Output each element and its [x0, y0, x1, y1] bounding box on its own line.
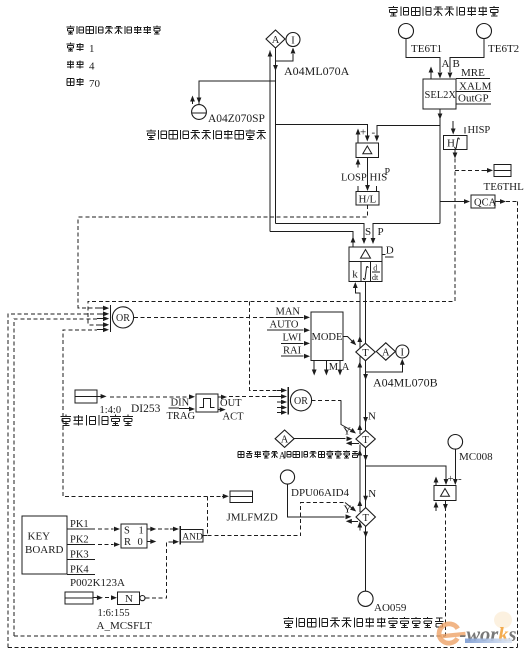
dashed AND output to transfer T3 [208, 503, 357, 536]
wire T2 output down to T3 [363, 448, 368, 508]
dashed outer left bus up to OR1 [8, 312, 109, 648]
header line 站号 4 [67, 60, 95, 72]
svg-text:KEY: KEY [28, 531, 51, 543]
svg-text:1: 1 [89, 43, 95, 55]
svg-text:PK2: PK2 [70, 535, 89, 546]
svg-text:ACT: ACT [223, 412, 245, 423]
SR flipflop [121, 524, 147, 548]
svg-text:BOARD: BOARD [25, 544, 64, 556]
wire track readback up to diamond A [268, 51, 273, 232]
OR gate (force manual) [97, 305, 134, 332]
setpoint station A04Z070SP [192, 105, 265, 125]
svg-text:MAN: MAN [276, 307, 301, 318]
svg-text:P: P [378, 226, 384, 238]
svg-text:N: N [368, 411, 376, 423]
title 甲磨煤机出口温度控制 (right) [389, 6, 499, 16]
svg-text:+: + [448, 473, 454, 485]
wire feedback into PID bottom [353, 282, 362, 348]
svg-text:I: I [291, 35, 295, 46]
wire T3 output down to AO059 [363, 526, 368, 591]
svg-text:PK3: PK3 [70, 550, 89, 561]
dashed inner left bus up to OR1 [14, 316, 109, 636]
svg-text:MRE: MRE [461, 67, 485, 79]
svg-text:d: d [373, 264, 377, 273]
wire feedback T2 to T1 [357, 357, 362, 434]
wire feedback T3 to T2 [357, 445, 362, 512]
svg-text:MODE: MODE [312, 332, 343, 343]
deviation bottom stub [434, 502, 439, 512]
output terminal JMLFMZD [227, 491, 278, 524]
svg-text:A: A [272, 35, 280, 46]
high limit block Hf [443, 121, 490, 150]
svg-text:S: S [124, 526, 130, 537]
dashed wire DI253 to pulse DIN [110, 394, 195, 408]
wire MODE output to transfer T1 [343, 337, 356, 346]
svg-text:k: k [352, 269, 358, 281]
SEL2X output OutGP [456, 93, 491, 105]
header title 甲磨煤机出口温度控制 [66, 26, 161, 35]
selector SEL2X [423, 79, 456, 109]
setpoint raise stub [190, 96, 195, 105]
svg-text:N: N [125, 593, 133, 605]
dashed wire PK1 to flipflop S [98, 527, 120, 532]
svg-text:A: A [342, 362, 350, 373]
caption 料位控制柜A磨煤机热风挡板指令 [238, 450, 358, 460]
analog input diamond A (level control cabinet) [275, 430, 294, 447]
svg-text:B: B [453, 58, 460, 70]
dashed AND output to JMLFMZD and left bus [203, 494, 229, 536]
dashed wire to TE6THL terminal [455, 168, 493, 173]
svg-text:PK4: PK4 [70, 565, 89, 576]
svg-text:N: N [368, 488, 376, 500]
svg-text:1: 1 [139, 526, 144, 537]
T2 readback stub left [346, 441, 359, 446]
svg-text:0: 0 [138, 537, 143, 548]
svg-text:A: A [281, 434, 289, 445]
quality check block QCA [440, 195, 497, 209]
caption 甲排粉机跳闸 [61, 415, 134, 426]
wire DPU06AID4 to T3 Y input [288, 484, 352, 519]
wire MAN command from OR gate to MODE [134, 307, 310, 320]
analog input TE6T1 [399, 24, 443, 56]
header line 域号 1 [66, 43, 94, 56]
indicator circle I (A04ML070B) [396, 345, 409, 358]
svg-text:T: T [362, 435, 369, 446]
dashed wire PK2 to flipflop R [98, 542, 120, 547]
AND gate [180, 526, 203, 545]
svg-text:Y: Y [343, 426, 351, 438]
e-works watermark logo [437, 612, 517, 647]
svg-text:XALM: XALM [459, 81, 492, 93]
svg-text:MC008: MC008 [459, 451, 493, 463]
svg-text:TE6T1: TE6T1 [411, 43, 442, 55]
svg-text:S: S [365, 226, 371, 238]
svg-text:HISP: HISP [468, 125, 491, 136]
svg-text:LWI: LWI [283, 333, 303, 344]
svg-text:SEL2X: SEL2X [425, 90, 457, 101]
wire output branch to deviation plus input [366, 466, 454, 485]
pulse (one-shot) block [196, 394, 218, 412]
deviation block (setpoint - PV) [356, 143, 379, 158]
dashed wire NOT output up to AND [146, 539, 180, 598]
PK3 output [67, 550, 95, 561]
svg-text:-: - [372, 127, 376, 139]
PK2 output [67, 535, 95, 546]
svg-text:RAI: RAI [283, 346, 302, 357]
dashed wire H-limit flag down and to OR1 [88, 159, 455, 328]
dashed deviation alarm output down [443, 501, 448, 637]
svg-text:P002K123A: P002K123A [70, 577, 125, 589]
setpoint caption 甲磨煤机出口温度设定值 [147, 130, 266, 140]
svg-text:A_MCSFLT: A_MCSFLT [97, 620, 153, 632]
wire SEL2X output down (measured value) [438, 109, 443, 224]
LWI input wire [281, 333, 310, 346]
svg-text:dt: dt [372, 273, 379, 282]
svg-text:DI253: DI253 [131, 403, 161, 415]
svg-text:AUTO: AUTO [270, 320, 299, 331]
svg-text:R: R [124, 537, 131, 548]
AUTO input wire [267, 320, 310, 333]
wire setpoint up to operator line [197, 81, 276, 104]
wire diamond A down to setpoint line [273, 48, 278, 224]
svg-text:T: T [362, 513, 369, 524]
svg-text:H/L: H/L [359, 194, 377, 206]
svg-text:PK1: PK1 [70, 519, 89, 530]
svg-text:M: M [329, 362, 339, 373]
pulse OUT output to OR2 [218, 395, 277, 409]
dashed outer bottom bus [8, 647, 518, 649]
label 1:4:0 DI253 [100, 403, 161, 416]
deviation block (output vs MC008) [434, 486, 456, 501]
wire A to T2 Y input [294, 426, 352, 442]
svg-text:D: D [386, 245, 394, 257]
svg-text:A: A [442, 58, 450, 70]
wire PID output down to transfer T1 [365, 281, 367, 343]
svg-text:Y: Y [344, 504, 352, 516]
pulse ACT output stub [218, 407, 244, 422]
input terminal A_MCSFLT [65, 592, 103, 604]
wire Hf output down [453, 150, 458, 159]
wire minus input to deviation block [372, 126, 441, 142]
wire T1 output down to T2 [363, 361, 368, 431]
svg-text:70: 70 [89, 78, 101, 90]
output terminal TE6THL [484, 165, 525, 194]
dashed wire to NOT gate [105, 595, 117, 600]
PK1 output [67, 519, 95, 530]
TRAG input wire [167, 407, 196, 422]
header line 页号 70 [67, 78, 101, 90]
svg-text:+: + [360, 127, 366, 139]
SEL2X output XALM [456, 81, 492, 93]
wire track line from PID top to A04ML070A [270, 232, 355, 247]
PID output D stub [382, 245, 394, 257]
svg-text:AO059: AO059 [374, 602, 407, 614]
dashed wire H-limit branch to OR2 input [250, 301, 277, 390]
wire setpoint plus input to deviation block [276, 125, 370, 142]
indicator circle I (A04ML070A) [286, 33, 300, 47]
svg-text:1:6:155: 1:6:155 [98, 608, 130, 619]
svg-text:A04Z070SP: A04Z070SP [208, 113, 265, 125]
wire S input (setpoint) to PID [276, 224, 372, 245]
PK4 output [67, 565, 95, 576]
input terminal DI253 [75, 390, 107, 403]
svg-text:OR: OR [294, 396, 308, 407]
svg-text:QCA: QCA [474, 198, 497, 209]
svg-text:OUT: OUT [220, 398, 242, 409]
analog output AO059 [358, 591, 407, 614]
H/L monitor block [356, 186, 379, 206]
dashed wire H/L alarm to OR gate [78, 205, 367, 311]
OR2 input stubs [277, 388, 287, 415]
wire TE6T1 to SEL2X input A [406, 39, 450, 79]
svg-text:4: 4 [89, 61, 95, 73]
SEL2X MRE readback stub [429, 67, 434, 80]
analog input DPU06AID4 [280, 470, 349, 499]
flipflop Q output to AND [147, 527, 179, 532]
dashed right bus down to bottom [517, 202, 519, 648]
T3 feedback stub below [357, 522, 362, 531]
svg-text:JMLFMZD: JMLFMZD [227, 512, 278, 524]
wire P input (process value) to PID [371, 224, 440, 245]
svg-text:OutGP: OutGP [458, 93, 489, 105]
svg-text:AND: AND [182, 533, 203, 543]
svg-text:OR: OR [116, 313, 130, 324]
dashed wire QCA flag to right bus [495, 199, 518, 204]
flipflop 0 output stub [147, 539, 156, 544]
OR gate (hot air damper command) [288, 387, 312, 415]
deviation LOSP input stub [356, 159, 361, 168]
svg-text:P: P [385, 167, 391, 178]
svg-text:A04ML070A: A04ML070A [284, 64, 350, 78]
MODE block [311, 312, 343, 361]
KEY BOARD block [22, 516, 67, 574]
svg-text:DIN: DIN [171, 398, 190, 409]
wire OR2 output to transfer T2 [312, 400, 356, 433]
svg-text:DPU06AID4: DPU06AID4 [291, 487, 350, 499]
analog input TE6T2 [477, 24, 520, 56]
analog input MC008 [448, 435, 493, 464]
dashed inner bottom bus [14, 635, 445, 637]
svg-text:LOSP: LOSP [341, 173, 367, 184]
svg-text:A04ML070B: A04ML070B [373, 376, 438, 390]
svg-text:H: H [447, 138, 455, 150]
caption 甲磨煤机出口温度控制挡板指令 [284, 617, 444, 627]
NOT gate N [118, 592, 145, 605]
svg-text:A: A [382, 347, 390, 358]
wire TE6T2 to SEL2X input B [448, 39, 484, 79]
T3 readback stub left [346, 519, 358, 524]
svg-text:TE6THL: TE6THL [484, 181, 525, 193]
wire deviation to H/L monitor [365, 158, 370, 192]
wire branch to indicator I [276, 48, 296, 62]
transfer diamond T2 [356, 430, 375, 447]
auto display diamond A (A04ML070B) [376, 343, 395, 360]
svg-text:T: T [362, 348, 369, 359]
label HIS with superscript P [370, 167, 391, 184]
svg-text:-: - [458, 473, 462, 485]
wire branch to indicator I (A04ML070B) [366, 359, 405, 372]
wire MC008 to deviation minus input [453, 449, 462, 485]
PID controller block [349, 247, 382, 282]
MODE status output stubs M and A [312, 361, 350, 376]
dashed wire AND flag to left OR input [63, 330, 208, 496]
deviation display diamond A04ML070A [266, 30, 285, 48]
RAI input wire [281, 346, 310, 359]
svg-text:I: I [401, 347, 405, 358]
deviation readback stub up [434, 477, 439, 486]
SEL2X output MRE [456, 67, 490, 79]
svg-text:TRAG: TRAG [167, 411, 196, 422]
transfer diamond T3 [356, 508, 375, 527]
transfer diamond T1 [356, 343, 375, 360]
deviation block readback stub up [356, 129, 361, 144]
svg-text:1:4:0: 1:4:0 [100, 405, 122, 416]
svg-text:TE6T2: TE6T2 [488, 43, 519, 55]
